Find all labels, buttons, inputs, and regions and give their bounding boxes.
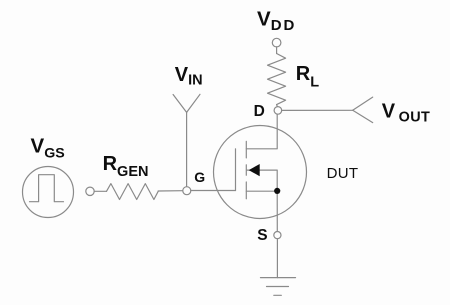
svg-text:DUT: DUT	[327, 165, 359, 182]
probe VIN (vertical lead)	[186, 112, 188, 186]
DUT gate plate	[235, 149, 237, 191]
terminal node (generator output)	[86, 187, 94, 195]
svg-text:S: S	[257, 227, 267, 244]
svg-text:VIN: VIN	[175, 64, 203, 89]
DUT body wire from arrow to source	[247, 170, 277, 191]
DUT body arrow	[249, 164, 260, 176]
probe VIN (right branch)	[187, 94, 200, 112]
wire RL to node D	[276, 105, 279, 107]
wire generator to RGEN	[94, 190, 106, 192]
wire node G to gate	[191, 190, 236, 192]
node D	[274, 107, 282, 115]
wire VDD to RL	[276, 47, 278, 54]
node S	[274, 232, 281, 239]
pulse waveform inside VGS	[30, 175, 64, 202]
ground (middle bar)	[267, 286, 289, 288]
probe VOUT (lower branch)	[353, 110, 373, 122]
DUT source connection	[246, 190, 277, 192]
DUT channel segment top	[245, 141, 247, 158]
power terminal VDD	[272, 38, 281, 47]
probe VOUT (upper branch)	[353, 97, 373, 110]
transistor DUT body circle	[214, 126, 307, 219]
svg-text:RGEN: RGEN	[103, 153, 149, 180]
node G	[183, 187, 191, 195]
junction dot source-body	[274, 188, 280, 194]
wire node S to ground	[276, 239, 278, 278]
resistor RL	[268, 54, 286, 105]
ground (top bar)	[261, 277, 296, 279]
probe VIN (left branch)	[173, 95, 187, 113]
svg-text:G: G	[194, 169, 205, 185]
DUT channel segment middle	[245, 165, 247, 175]
ground (bottom bar)	[274, 294, 282, 296]
svg-text:VGS: VGS	[31, 134, 65, 161]
svg-text:VDD: VDD	[257, 7, 296, 34]
resistor RGEN	[107, 184, 159, 200]
wire junction to node S	[276, 191, 278, 232]
svg-text:D: D	[254, 103, 265, 120]
svg-text:VOUT: VOUT	[382, 101, 430, 126]
wire node D to VOUT probe	[282, 109, 353, 111]
DUT drain connection	[246, 114, 277, 149]
svg-text:RL: RL	[296, 63, 319, 91]
pulse generator VGS (circle)	[23, 167, 74, 218]
wire RGEN to node G	[158, 190, 183, 192]
DUT channel segment bottom	[245, 182, 247, 199]
